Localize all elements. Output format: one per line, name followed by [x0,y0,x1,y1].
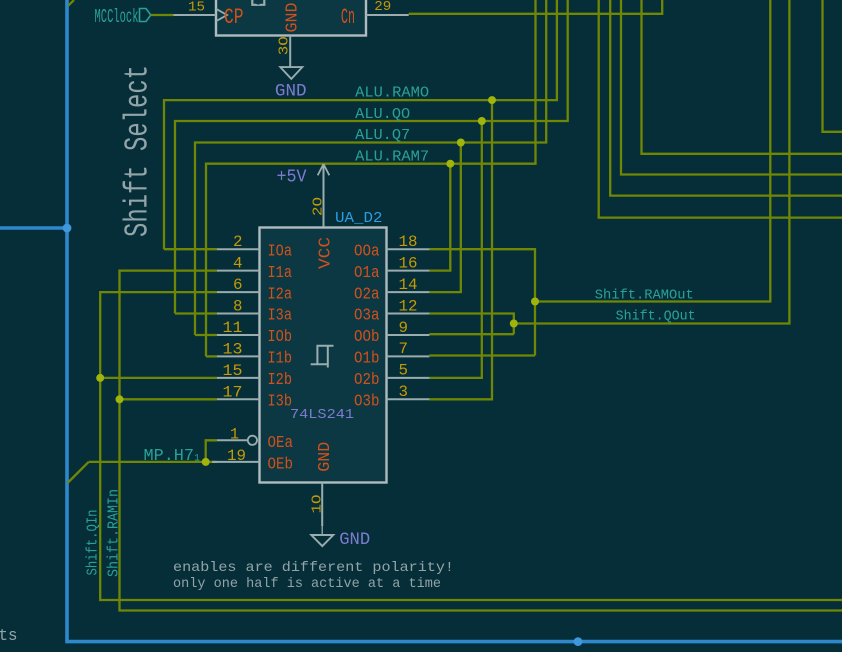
svg-text:O1a: O1a [354,264,380,283]
wire net Shift.QOut [514,0,790,324]
wire ALU.Q0 to pin8 [175,312,217,314]
svg-text:OOa: OOa [354,242,380,261]
svg-text:3O: 3O [277,36,293,55]
svg-text:I2b: I2b [268,371,293,390]
svg-text:IOa: IOa [268,242,293,261]
svg-text:Shift.RAMOut: Shift.RAMOut [595,288,694,303]
wire net ALU.Q0 [175,0,568,314]
svg-text:15: 15 [223,362,243,380]
svg-text:15: 15 [188,0,205,16]
svg-text:16: 16 [399,254,418,272]
ground symbol top [280,67,302,79]
pin 9 stub [387,334,430,336]
svg-text:Cn: Cn [341,5,355,30]
svg-text:11: 11 [223,319,243,337]
wire net Shift.RAMOut [535,0,770,302]
pin 29 Cn stub [366,14,409,16]
IC U_top body (clipped) [216,0,366,36]
wire O3b to ALU.RAM0 [429,100,492,399]
wire O1a to ALU.RAM7 [429,164,450,271]
svg-text:1: 1 [230,426,239,444]
svg-text:19: 19 [227,447,246,465]
pin 18 stub [387,248,430,250]
svg-text:only one half is active at a t: only one half is active at a time [173,576,441,592]
svg-text:Shift.QOut: Shift.QOut [616,309,696,324]
svg-text:I3a: I3a [268,307,293,326]
svg-text:GND: GND [316,442,335,472]
pin 10 GND stub [321,483,323,527]
svg-text:OEa: OEa [268,434,294,453]
power +5V pin 20 line [323,164,325,228]
wire elbow a [642,0,842,154]
junction Shift.QIn [96,374,104,382]
wire MP.H7 to OEa [206,440,217,462]
svg-text:Shift Select: Shift Select [120,65,157,237]
junction Shift.RAMOut [531,298,539,306]
wire pin17 branch [120,398,218,400]
global label outline [140,9,151,22]
pin 6 stub [217,291,260,293]
pin 12 stub [387,313,430,315]
bus entry top-left [68,0,74,6]
pin 17 stub [217,398,260,400]
pin 14 stub [387,291,430,293]
wire ALU.RAM7 to pin13 [206,355,217,357]
schmitt graphic [311,346,334,368]
svg-text:ALU.QO: ALU.QO [355,107,410,123]
wire O2b to ALU.Q0 [429,121,481,378]
pin 11 stub [217,334,260,336]
svg-text:8: 8 [233,298,243,316]
svg-text:O2b: O2b [354,371,380,390]
junction ALU.Q7 [457,139,465,147]
svg-text:17: 17 [223,383,243,401]
svg-text:4: 4 [233,255,243,273]
power +5V arrow [318,164,330,175]
pin 5 stub [387,377,430,379]
wire MP.H7 to OEb [206,461,217,463]
junction MP.H7 [202,458,210,466]
pin 8 stub [217,313,260,315]
junction ALU.RAM0 [488,96,496,104]
svg-text:ALU.RAM7: ALU.RAM7 [355,149,429,165]
pin 4 stub [217,270,260,272]
wire to pin7 O1b [429,354,535,356]
junction Shift.RAMIn [116,395,124,403]
junction Shift.QOut [510,320,518,328]
svg-text:1O: 1O [310,495,326,514]
pin 3 stub [387,398,430,400]
junction ALU.Q0 [478,117,486,125]
svg-text:13: 13 [223,340,243,358]
wire elbow b [621,0,842,175]
bus entry MP.H7 [68,462,89,483]
bus junction [63,224,72,233]
bus branch left [0,226,67,230]
svg-text:6: 6 [233,276,243,294]
svg-text:Shift.QIn: Shift.QIn [85,510,102,576]
wire O3a to Shift.QOut corner [429,314,513,335]
pin 1 invert bubble [248,436,257,445]
svg-text:Shift.RAMIn: Shift.RAMIn [106,489,123,577]
wire net MP.H7 [89,461,206,463]
pin 2 stub [217,248,260,250]
graphic mark top [252,0,264,5]
wire MCClock [151,14,174,16]
wire O2a to ALU.Q7 [429,143,460,293]
svg-text:I2a: I2a [268,285,293,304]
pin 19 stub [212,461,260,463]
svg-text:14: 14 [399,276,418,294]
svg-text:2O: 2O [311,197,327,216]
svg-text:29: 29 [374,0,391,15]
svg-text:I3b: I3b [268,393,293,412]
svg-text:GND: GND [339,530,370,550]
svg-text:VCC: VCC [316,237,335,269]
svg-text:O3b: O3b [354,393,380,412]
wire O0a to Shift.RAMOut corner [429,249,535,355]
svg-text:OEb: OEb [268,456,294,475]
pin 7 stub [387,355,430,357]
wire elbow d [599,0,842,218]
svg-text:IOb: IOb [268,328,293,347]
wire pin29 Cn [409,0,663,14]
ground symbol bottom [311,535,333,546]
svg-text:ts: ts [0,627,18,646]
svg-text:ALU.Q7: ALU.Q7 [355,128,410,144]
wire elbow c [610,0,842,196]
svg-text:5: 5 [399,362,409,380]
wire to pin9 O0b [429,333,513,335]
wire ALU.Q7 to pin11 [195,334,217,336]
pin 30 GND stub [289,36,291,67]
wire net ALU.RAM0 [164,0,557,249]
svg-text:OOb: OOb [354,328,380,347]
pin 15 CP stub [174,14,217,16]
svg-text:+5V: +5V [277,167,307,187]
svg-text:O3a: O3a [354,307,380,326]
svg-text:MP.H7: MP.H7 [144,447,195,466]
wire pin15 branch [100,377,217,379]
svg-text:MCClock: MCClock [95,6,139,28]
clock symbol CP [216,9,227,21]
svg-text:18: 18 [399,233,418,251]
svg-text:O2a: O2a [354,285,380,304]
wire ALU.RAM0 to pin2 [164,248,217,250]
bus junction bottom [574,637,583,646]
wire net ALU.Q7 [195,0,546,335]
wire net Shift.QIn [100,292,842,600]
pin 16 stub [387,270,430,272]
IC UA_D2 74LS241 body [260,228,387,483]
pin 10 lead [321,526,323,535]
svg-text:I1b: I1b [268,350,293,369]
svg-text:I1a: I1a [268,264,293,283]
svg-text:3: 3 [399,383,409,401]
svg-text:1: 1 [194,453,200,465]
junction ALU.RAM7 [446,160,454,168]
svg-text:enables are different polarity: enables are different polarity! [173,560,454,576]
svg-text:9: 9 [399,319,409,337]
svg-text:GND: GND [284,3,303,33]
svg-text:GND: GND [275,82,307,102]
pin 15 stub [217,377,260,379]
pin 1 stub [217,439,248,441]
svg-text:O1b: O1b [354,350,380,369]
svg-text:74LS241: 74LS241 [290,407,354,423]
wire net ALU.RAM7 [206,0,536,356]
svg-text:12: 12 [399,297,418,315]
svg-text:ALU.RAMO: ALU.RAMO [355,86,429,102]
wire net Shift.RAMIn [120,271,842,611]
svg-text:7: 7 [399,340,409,358]
svg-text:CP: CP [224,5,244,30]
wire elbow e [823,0,842,132]
pin 13 stub [217,355,260,357]
svg-text:2: 2 [233,233,243,251]
svg-text:UA_D2: UA_D2 [335,211,383,227]
